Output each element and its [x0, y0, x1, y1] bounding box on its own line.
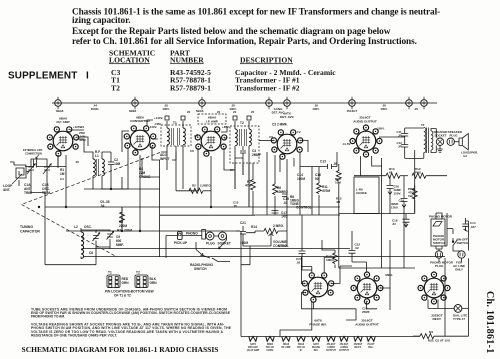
svg-text:C3 2 MMF.: C3 2 MMF.: [272, 123, 288, 127]
dashed label box V3: [198, 114, 226, 124]
svg-text:OUTPUT: OUTPUT: [326, 349, 336, 352]
resistor R12: [412, 173, 426, 178]
svg-text:BAL.: BAL.: [368, 346, 374, 349]
svg-text:M1: M1: [429, 330, 433, 334]
node test point 7: [406, 97, 413, 109]
svg-text:+85V.: +85V.: [222, 125, 230, 129]
transformer T3 primary winding: [424, 128, 426, 153]
cap C3 inside: [240, 146, 246, 158]
svg-text:+140V.: +140V.: [154, 116, 163, 120]
wire x390 C20: [389, 176, 391, 185]
wire x142: [142, 158, 160, 177]
node test point 6: [349, 97, 356, 109]
svg-text:TYPE 47: TYPE 47: [453, 317, 465, 321]
speaker socket: [436, 138, 443, 145]
wire tube7 right riser: [380, 240, 390, 288]
loop antenna L0: [14, 165, 26, 178]
wire bus y258: [84, 248, 350, 250]
wire tube2 grid drop: [111, 148, 128, 189]
on-off switch: [453, 238, 458, 248]
label tuning capacitor: [20, 225, 40, 234]
svg-text:000XL: 000XL: [91, 107, 100, 111]
svg-text:OF T1 & T2: OF T1 & T2: [114, 294, 131, 298]
svg-text:T3: T3: [421, 123, 425, 127]
label L1: [60, 150, 151, 228]
svg-text:AUDIO OUTPUT: AUDIO OUTPUT: [355, 323, 379, 327]
wire y215 left extension: [160, 214, 255, 216]
wire volume drop: [278, 231, 287, 246]
svg-text:10MEG: 10MEG: [277, 190, 288, 194]
svg-text:20: 20: [251, 110, 255, 114]
svg-text:Ch. 101.861-1: Ch. 101.861-1: [484, 291, 495, 354]
wire x158 riser: [159, 160, 161, 257]
cap C24: [299, 215, 312, 270]
svg-text:C4: C4: [60, 177, 64, 181]
svg-text:6BE6: 6BE6: [129, 109, 137, 113]
wire verticals center: [241, 231, 250, 265]
tube V2 6BE6 converter: [124, 126, 156, 155]
cap C22: [349, 231, 367, 271]
svg-text:47M: 47M: [245, 184, 252, 188]
wire AC line bottom: [413, 335, 420, 337]
speaker plug: [447, 138, 454, 145]
svg-text:.04: .04: [80, 125, 84, 129]
svg-text:IF.: IF.: [300, 349, 303, 352]
svg-text:470M: 470M: [322, 189, 330, 193]
resistor R17: [334, 250, 336, 254]
transformer T3 secondary: [431, 131, 433, 150]
svg-text:CHOKE: CHOKE: [356, 191, 367, 195]
wire T2 drops: [235, 163, 249, 207]
wires motor: [436, 246, 442, 251]
svg-text:R3: R3: [117, 229, 121, 233]
svg-text:C19: C19: [399, 199, 405, 203]
svg-text:.005: .005: [281, 215, 287, 219]
line bypass cap C14: [462, 218, 468, 232]
wire coil bottoms: [93, 176, 111, 189]
svg-text:SWITCH: SWITCH: [457, 241, 469, 245]
choke box L-R9: [354, 177, 379, 214]
trimmer capacitor C6: [93, 233, 100, 241]
svg-text:R7: R7: [230, 168, 234, 172]
svg-text:150V.: 150V.: [391, 206, 399, 210]
capacitor C11: [401, 134, 408, 145]
svg-text:RECT.: RECT.: [433, 317, 442, 321]
node test point 4: [266, 97, 273, 109]
svg-text:DET. AVC: DET. AVC: [280, 115, 295, 119]
SUPPLEMENT label: [8, 71, 89, 82]
svg-text:INV.: INV.: [314, 349, 319, 352]
svg-text:ONLY: ONLY: [455, 268, 463, 272]
svg-text:+105V.: +105V.: [376, 127, 385, 131]
svg-text:C6: C6: [89, 251, 93, 255]
wire y231 extension right: [160, 230, 240, 232]
svg-text:C21: C21: [240, 221, 246, 225]
svg-text:T1: T1: [173, 121, 177, 125]
wire tube4 left pin to T2: [259, 139, 274, 141]
svg-text:R.F. AMP: R.F. AMP: [56, 120, 69, 124]
svg-text:20: 20: [187, 110, 191, 114]
capacitor C12: [401, 145, 408, 159]
svg-text:400V.: 400V.: [162, 107, 169, 111]
wire B- bus: [66, 230, 160, 232]
label T2 C3: [240, 121, 288, 188]
svg-text:I: I: [86, 71, 89, 82]
svg-text:10M: 10M: [114, 162, 121, 166]
svg-text:MMF.: MMF.: [116, 243, 124, 247]
tube V7 25L6GT audio output: [351, 272, 383, 304]
extra interconnect wires middle: [84, 120, 294, 246]
capacitor C2: [108, 152, 114, 189]
svg-text:ANT.: ANT.: [3, 188, 10, 192]
svg-text:PLUG: PLUG: [450, 133, 459, 137]
labels T1 T2 views: [105, 271, 157, 298]
node test point 2: [132, 97, 139, 109]
svg-text:GRN: GRN: [122, 281, 130, 285]
label loop ant: [3, 149, 50, 195]
wire x381.6 long: [381, 158, 383, 268]
svg-text:1W.: 1W.: [408, 194, 413, 198]
label power: [335, 167, 422, 226]
antenna coil L1: [77, 139, 114, 189]
wire AVC bus: [45, 206, 340, 208]
svg-text:MEG.: MEG.: [386, 273, 394, 277]
resistor R10: [386, 173, 400, 178]
svg-text:PICK-UP: PICK-UP: [174, 241, 188, 245]
svg-text:220M: 220M: [124, 229, 132, 233]
svg-text:-11.5V.: -11.5V.: [342, 142, 351, 146]
svg-text:izing capacitor.: izing capacitor.: [72, 16, 130, 26]
svg-text:PLUG: PLUG: [206, 242, 215, 246]
node test point 8: [421, 97, 428, 109]
svg-text:+140V.: +140V.: [148, 125, 157, 129]
svg-text:SCHEMATIC DIAGRAM FOR 101.861-: SCHEMATIC DIAGRAM FOR 101.861-1 RADIO CH…: [22, 345, 219, 354]
wire T3 secondary to socket: [431, 129, 436, 153]
wire pickup leads: [166, 236, 178, 259]
wire tube2 top to line: [147, 120, 153, 126]
svg-text:CONTROL: CONTROL: [273, 244, 289, 248]
svg-text:SUPPLEMENT: SUPPLEMENT: [8, 71, 78, 82]
svg-text:SWITCH: SWITCH: [194, 267, 207, 271]
svg-text:220M: 220M: [119, 224, 127, 228]
wire tube6 right: [331, 266, 352, 283]
svg-text:PHONO MOTOR: PHONO MOTOR: [429, 215, 453, 219]
resistor R16 470M: [414, 185, 416, 189]
cap C18: [403, 214, 410, 228]
svg-text:R2: R2: [192, 184, 196, 188]
svg-text:L1: L1: [95, 154, 99, 158]
wire x414.7: [414, 150, 416, 214]
svg-text:T2: T2: [136, 271, 140, 275]
wire tube4 right pin: [300, 140, 308, 152]
svg-text:4M: 4M: [336, 200, 341, 204]
wire coil tops: [77, 139, 93, 159]
svg-text:1M: 1M: [60, 172, 65, 176]
svg-text:CONNECTION: CONNECTION: [25, 153, 42, 156]
label osc: [74, 225, 132, 255]
svg-text:RECT.: RECT.: [355, 346, 362, 349]
svg-text:T2: T2: [240, 121, 244, 125]
wire tube3 left pins drop: [189, 148, 198, 191]
tube V5 25L6GT audio output: [350, 125, 382, 157]
wire y268: [339, 267, 415, 269]
svg-text:RF AMP: RF AMP: [281, 346, 290, 349]
svg-text:FROM PHONO TO AM.: FROM PHONO TO AM.: [31, 315, 65, 319]
svg-text:400V.: 400V.: [312, 107, 319, 111]
svg-text:SOCKET: SOCKET: [435, 133, 447, 137]
svg-text:M.B. G5 AT 15A: M.B. G5 AT 15A: [428, 339, 451, 343]
svg-text:20: 20: [233, 110, 237, 114]
wire tube2 pins: [152, 146, 160, 160]
labels phase region: [326, 243, 393, 315]
gang trimmer C1B: [44, 162, 50, 177]
padder capacitor C5: [107, 231, 114, 239]
wire tube3 right pins drop: [224, 148, 235, 170]
tube1 aux wires: [58, 130, 88, 168]
svg-text:1MEG: 1MEG: [326, 258, 335, 262]
svg-text:JU: JU: [392, 222, 396, 226]
transformer T1: [152, 116, 198, 189]
svg-text:3.2: 3.2: [463, 154, 467, 158]
scattered voltage labels: [56, 109, 301, 181]
svg-text:C13: C13: [320, 160, 326, 164]
svg-text:.02: .02: [355, 246, 360, 250]
wire x404 C19: [403, 176, 405, 198]
svg-text:NUMBER: NUMBER: [170, 55, 204, 64]
wire loop to gang: [10, 162, 29, 172]
wire y166: [300, 164, 337, 169]
svg-text:DESCRIPTION: DESCRIPTION: [240, 55, 293, 64]
fuse resistor M1: [420, 334, 434, 339]
loudspeaker: [459, 134, 468, 150]
cap C21: [240, 226, 246, 240]
cap C15: [272, 194, 288, 213]
gang trimmer C1A: [28, 162, 34, 177]
svg-text:25L6GT: 25L6GT: [347, 109, 358, 113]
phono plug: [202, 230, 206, 240]
svg-text:-1V.: -1V.: [296, 130, 301, 134]
tuning capacitor dashed link: [22, 153, 161, 258]
wire tube7 bottom: [367, 302, 378, 309]
svg-text:I.F. AMP: I.F. AMP: [206, 120, 218, 124]
resistor R5 vertical: [120, 212, 125, 223]
wire tube6 top riser: [324, 257, 335, 273]
resistor R2: [176, 152, 189, 191]
label speaker: [342, 123, 478, 158]
svg-text:JP: JP: [398, 133, 402, 137]
pointer line to loop: [12, 174, 22, 184]
svg-text:20: 20: [217, 110, 221, 114]
wire x322 from het: [280, 302, 312, 337]
svg-text:10M: 10M: [335, 181, 341, 185]
phono motor plug: [435, 251, 442, 258]
phono socket: [219, 232, 227, 240]
voltage labels: [80, 110, 255, 208]
svg-text:400V.: 400V.: [380, 107, 387, 111]
tube V1 6BA6 RF AMP: [47, 127, 79, 156]
ac line plug: [458, 251, 465, 258]
wire C-shape left of phase inv: [301, 257, 311, 284]
svg-text:2.2MEG: 2.2MEG: [200, 184, 211, 188]
svg-text:.02: .02: [296, 261, 301, 265]
svg-text:OUTPUT: OUTPUT: [339, 349, 349, 352]
wire bus y264: [45, 207, 96, 265]
svg-text:TRIM: TRIM: [42, 191, 50, 195]
svg-text:Transformer - IF #2: Transformer - IF #2: [235, 83, 300, 92]
node test point 1: [55, 97, 62, 109]
labels heater: [247, 343, 375, 352]
wire tube4 pins drop: [280, 158, 294, 172]
wire right riser: [444, 258, 446, 336]
node test point 5: [284, 97, 291, 109]
extra right-middle details: [259, 140, 417, 270]
wire tube2 drop: [139, 155, 141, 231]
wire tube3 drop: [210, 156, 212, 207]
labels test line: [91, 104, 419, 115]
wire loop bottom stub: [18, 180, 20, 186]
heater resistors: [249, 337, 257, 342]
tube5 bottom pin drops: [361, 156, 382, 176]
svg-text:OSC.: OSC.: [84, 225, 92, 229]
pilot light: [454, 305, 462, 313]
svg-text:CONTROL: CONTROL: [296, 206, 312, 210]
svg-text:GRN: GRN: [150, 281, 158, 285]
wire plate tube5: [379, 128, 405, 137]
wire caps to T3: [405, 128, 424, 158]
ground under socket: [437, 145, 443, 152]
svg-text:.047: .047: [470, 225, 476, 229]
wire x338.8 with R13: [338, 164, 340, 268]
svg-text:INPUT: INPUT: [160, 157, 170, 161]
resistor R7: [252, 163, 254, 180]
svg-text:PHONO: PHONO: [186, 232, 198, 236]
node test point 3: [199, 97, 206, 109]
svg-text:.01: .01: [283, 201, 288, 205]
wire y215: [255, 214, 340, 216]
wire heater bus: [241, 336, 413, 338]
svg-text:PLUG: PLUG: [435, 264, 444, 268]
svg-text:SWITCH: SWITCH: [433, 241, 445, 245]
svg-text:2MMF: 2MMF: [252, 153, 261, 157]
svg-text:LOCATION: LOCATION: [109, 55, 150, 64]
svg-text:100M: 100M: [297, 177, 305, 181]
T2 bottom view: [135, 275, 148, 288]
wire tube1 cathode drop: [65, 155, 67, 207]
svg-text:R14: R14: [251, 225, 257, 229]
svg-text:.05: .05: [233, 204, 237, 208]
external antenna switch: [34, 160, 37, 168]
svg-text:PHIL: PHIL: [415, 171, 422, 175]
wire tube3 plate rise: [221, 126, 227, 132]
svg-text:RESISTANCE OF ONE THOUSAND OHM: RESISTANCE OF ONE THOUSAND OHMS PER VOLT…: [31, 334, 117, 338]
svg-text:.05: .05: [414, 107, 418, 111]
svg-text:6BA6: 6BA6: [196, 109, 204, 113]
svg-text:SOCKET: SOCKET: [218, 242, 231, 246]
tube labels: [56, 112, 442, 327]
wire B+ bus: [354, 175, 386, 177]
label phono: [174, 221, 289, 271]
tube V3 6BA6 IF amp: [195, 127, 227, 156]
transformer T2: [224, 116, 273, 207]
svg-text:AUDIO OUTPUT: AUDIO OUTPUT: [353, 119, 377, 123]
svg-text:TUNING: TUNING: [20, 225, 33, 229]
svg-text:L2: L2: [74, 225, 78, 229]
svg-text:TRIM: TRIM: [24, 191, 32, 195]
svg-text:R57-78879-1: R57-78879-1: [170, 83, 211, 92]
wire ant row: [25, 155, 66, 167]
tube V8 25Z6GT rectifier: [418, 272, 450, 304]
bus y213.5: [339, 213, 415, 215]
tube V6 6AT6 phase inverter: [302, 273, 334, 302]
tube V4 6AT6 det avc: [271, 130, 303, 159]
svg-text:C8: C8: [190, 149, 194, 153]
svg-text:2 MEG.: 2 MEG.: [273, 224, 284, 228]
wire y308.8 under tubes: [301, 302, 356, 308]
vertical Ch label: [484, 291, 495, 354]
wire y189: [84, 188, 160, 190]
resistor R11: [317, 183, 322, 194]
volume control pot: [264, 228, 278, 233]
svg-text:Except for the Repair Parts li: Except for the Repair Parts listed below…: [72, 27, 391, 37]
svg-text:T2: T2: [111, 83, 120, 92]
svg-text:.05: .05: [75, 160, 79, 164]
pickup cartridge: [178, 232, 183, 240]
T1 bottom view: [107, 275, 120, 288]
svg-text:.05: .05: [333, 162, 338, 166]
svg-text:CAPACITOR: CAPACITOR: [20, 230, 40, 234]
wire osc to tube2: [121, 177, 123, 231]
svg-text:68: 68: [389, 171, 393, 175]
wire gang bottoms to bus: [31, 177, 47, 207]
svg-text:T1: T1: [108, 271, 112, 275]
svg-text:(2) AT AMP: (2) AT AMP: [247, 349, 260, 352]
label T1: [160, 121, 177, 161]
label det network: [277, 160, 338, 219]
phono motor box: [431, 219, 445, 246]
label motor: [428, 215, 476, 343]
svg-text:CONV.: CONV.: [266, 349, 274, 352]
wire det drops: [266, 152, 268, 215]
oscillator coil L2: [81, 228, 114, 259]
radio-phono switch arms: [219, 236, 227, 249]
svg-text:6BA6: 6BA6: [56, 109, 64, 113]
wire top AVC line: [52, 102, 437, 104]
svg-text:JP: JP: [398, 144, 402, 148]
svg-text:25MF: 25MF: [362, 310, 370, 314]
svg-text:150V.: 150V.: [394, 192, 402, 196]
svg-text:50: 50: [315, 177, 319, 181]
svg-text:refer to Ch. 101.861 for all: refer to Ch. 101.861 for all Service Inf…: [72, 37, 417, 47]
